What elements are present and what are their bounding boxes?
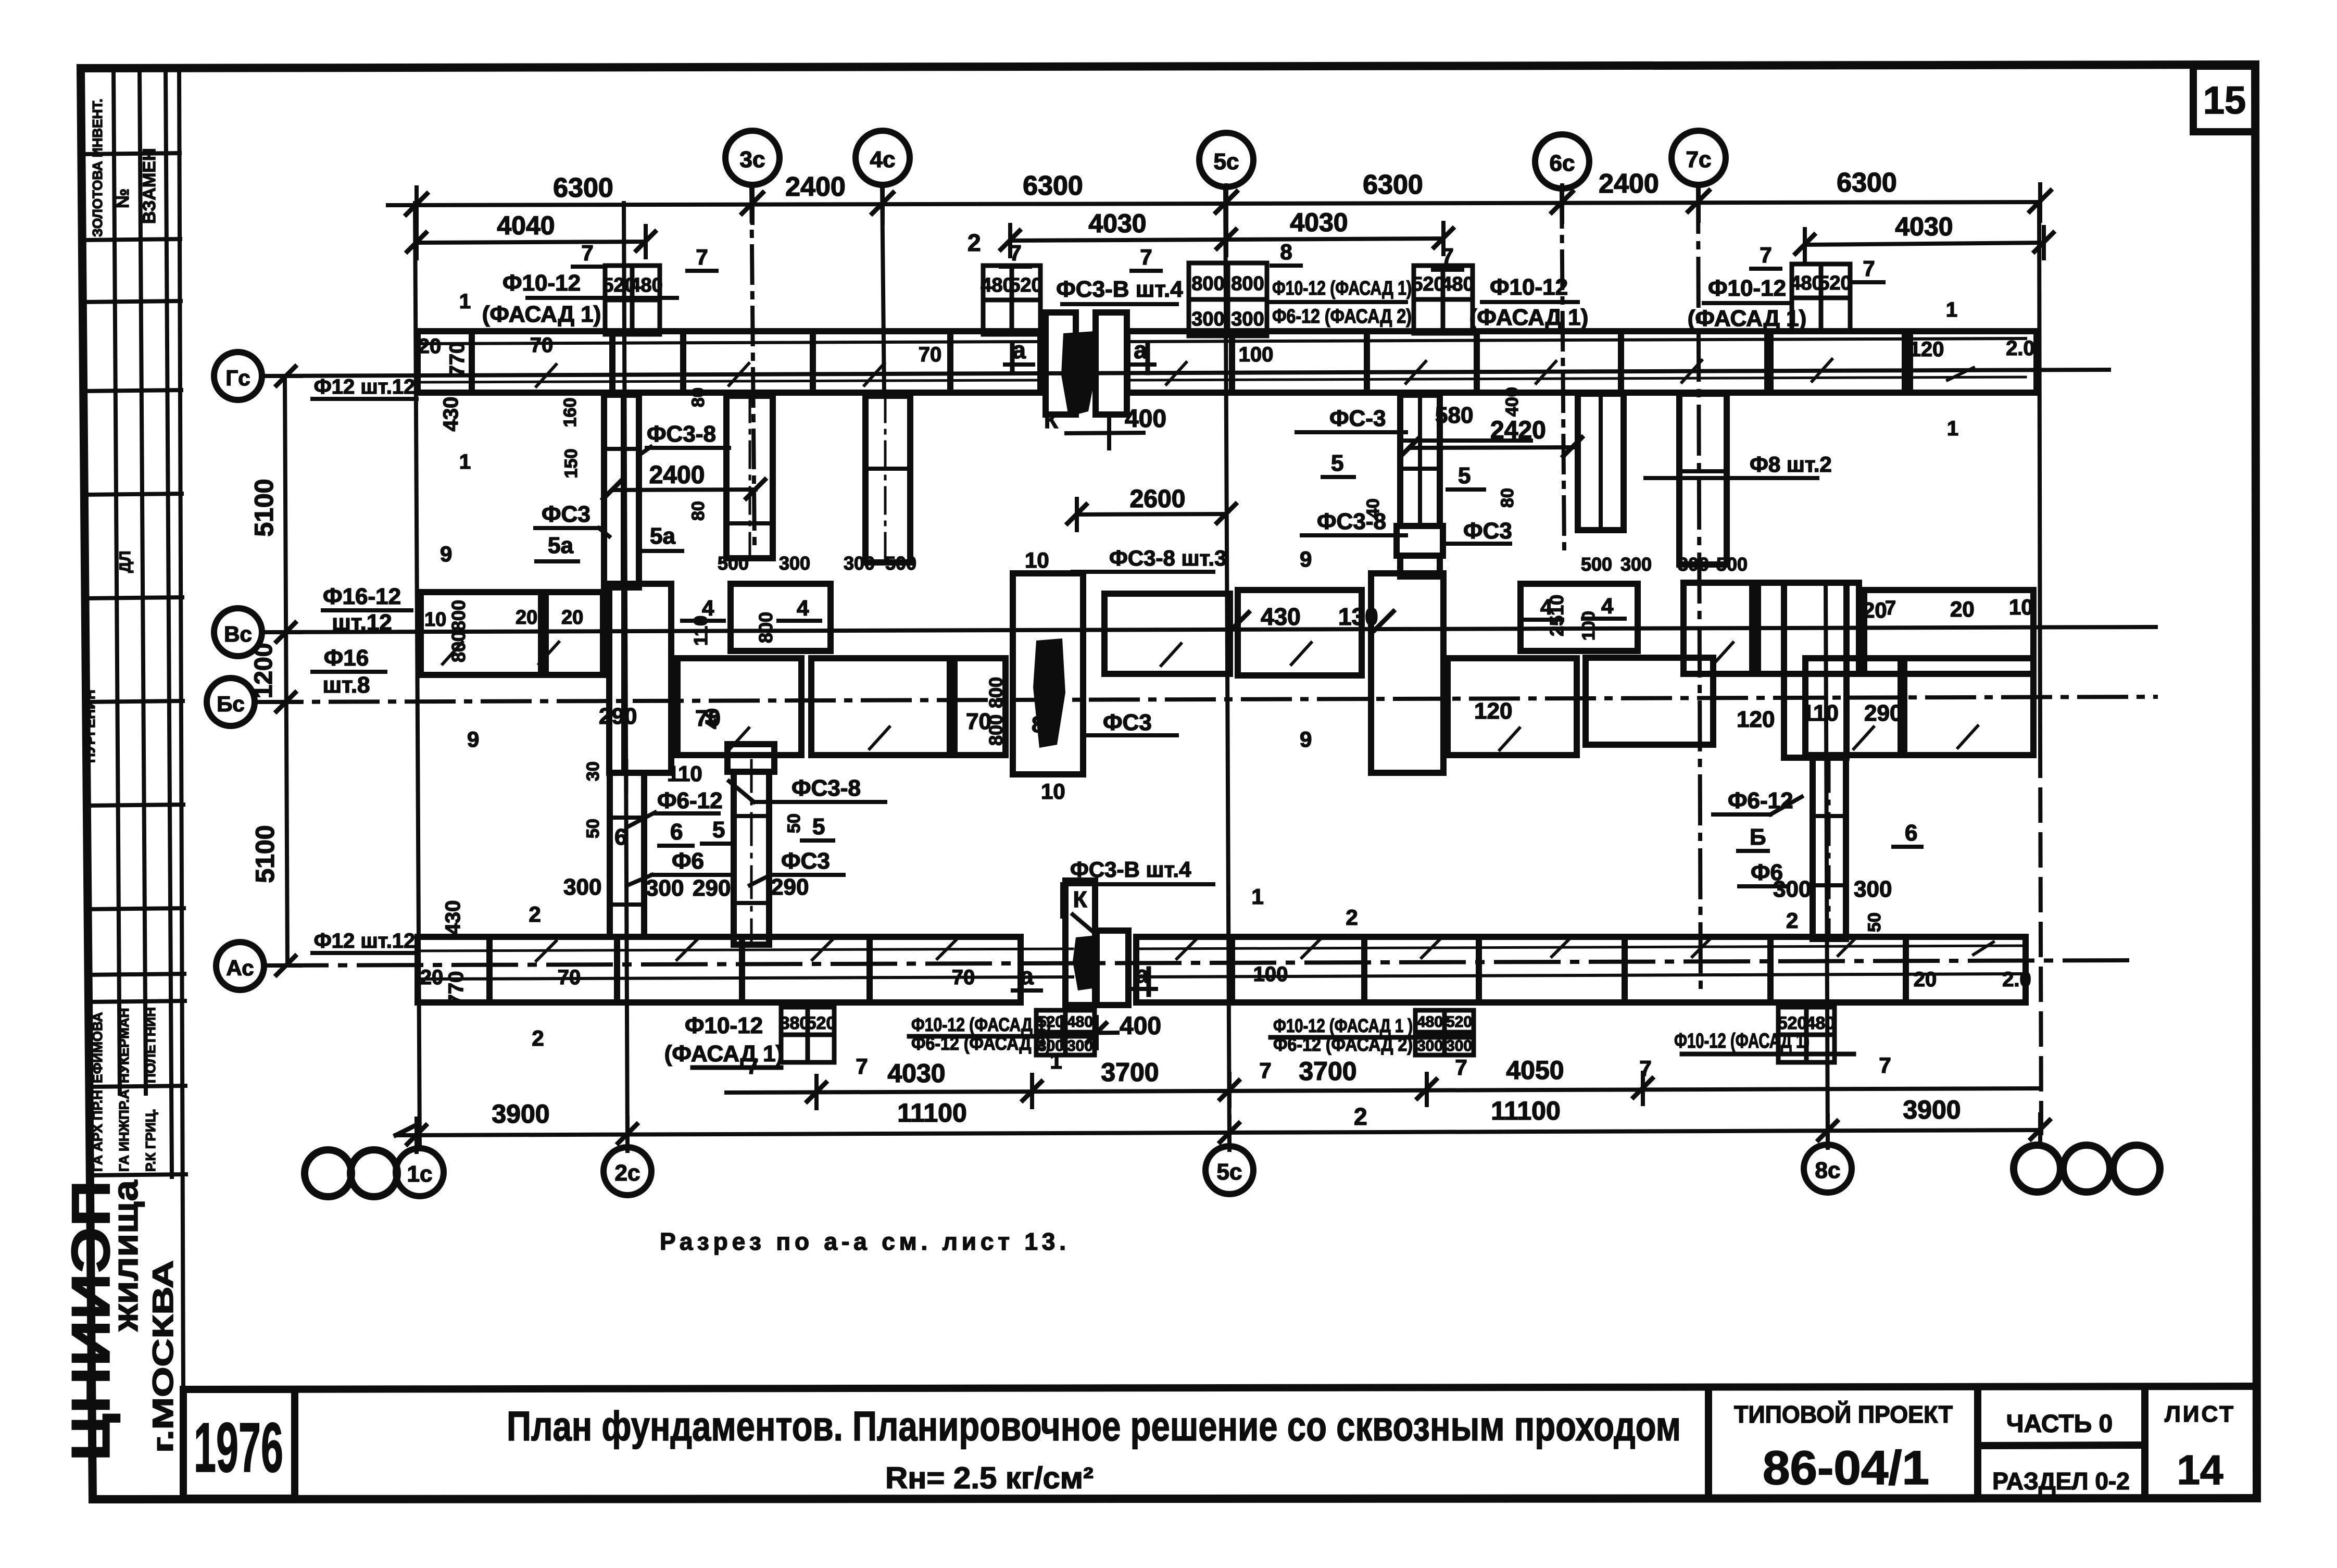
svg-text:520: 520 <box>1818 272 1851 294</box>
svg-text:7: 7 <box>696 245 708 269</box>
svg-text:2: 2 <box>968 229 981 256</box>
svg-text:800: 800 <box>985 677 1007 708</box>
svg-text:2.0: 2.0 <box>2006 337 2035 360</box>
svg-text:100: 100 <box>1253 963 1288 986</box>
svg-text:7: 7 <box>856 1054 868 1078</box>
svg-text:Ф16-12: Ф16-12 <box>323 584 401 609</box>
svg-text:4030: 4030 <box>887 1059 945 1088</box>
svg-text:480: 480 <box>1790 272 1823 294</box>
svg-text:(ФАСАД 1): (ФАСАД 1) <box>1469 305 1589 330</box>
LABELS between Гс and Вс <box>439 290 1958 575</box>
svg-text:а: а <box>1135 961 1149 988</box>
centerlines <box>626 760 629 937</box>
strip segment <box>1625 937 1770 1002</box>
GRID AXES & CIRCLES <box>255 185 2156 1149</box>
7 section marks with bars <box>581 240 1875 281</box>
svg-text:160: 160 <box>560 398 580 428</box>
svg-text:300: 300 <box>779 553 810 574</box>
svg-text:Ф6-12: Ф6-12 <box>657 788 723 813</box>
svg-text:400: 400 <box>1125 405 1166 433</box>
svg-text:40: 40 <box>1363 498 1383 518</box>
svg-text:520: 520 <box>1778 1013 1807 1033</box>
svg-text:г.МОСКВА: г.МОСКВА <box>146 1260 179 1453</box>
dim row B1 <box>726 1088 2040 1093</box>
svg-text:9: 9 <box>440 542 452 566</box>
svg-text:70: 70 <box>966 709 991 734</box>
top circle 7с <box>1672 131 1726 185</box>
svg-text:20: 20 <box>420 966 444 989</box>
svg-text:Ф12 шт.12: Ф12 шт.12 <box>314 930 416 952</box>
svg-text:70: 70 <box>558 966 581 989</box>
inner line of strip <box>418 977 1073 979</box>
svg-text:290: 290 <box>599 704 637 729</box>
bottom blank circle <box>350 1150 397 1197</box>
STRIP ROW Вс/Бс (middle foundation band) <box>421 573 2033 774</box>
svg-text:5: 5 <box>812 814 825 839</box>
svg-text:80: 80 <box>1498 488 1517 508</box>
svg-text:6300: 6300 <box>1363 170 1423 200</box>
diagonal break marks <box>443 642 1978 750</box>
junction piece a-a right <box>1096 312 1127 415</box>
box 520x480 <box>605 266 660 334</box>
bar near 6с right <box>1578 394 1624 530</box>
svg-text:7: 7 <box>1879 1053 1891 1077</box>
circle Ас <box>216 942 264 990</box>
vertical bar <box>1784 583 1846 758</box>
svg-text:300: 300 <box>1231 308 1264 330</box>
svg-text:800: 800 <box>448 600 469 631</box>
svg-text:120: 120 <box>1737 707 1775 732</box>
svg-text:Ф6: Ф6 <box>672 848 704 874</box>
svg-text:5с: 5с <box>1214 149 1239 174</box>
svg-text:430: 430 <box>1261 603 1301 630</box>
svg-text:100: 100 <box>1579 611 1599 641</box>
dim line row 1 <box>388 202 2040 205</box>
strip segment <box>489 937 617 1002</box>
svg-text:9: 9 <box>1300 727 1312 751</box>
grid line 5с <box>1225 187 1229 1147</box>
strip segment <box>870 937 1021 1002</box>
axis Вс line <box>262 627 2156 632</box>
svg-text:6: 6 <box>614 824 627 850</box>
svg-text:520: 520 <box>1038 1013 1064 1031</box>
svg-text:6300: 6300 <box>1023 171 1083 201</box>
svg-text:300: 300 <box>1678 554 1709 575</box>
svg-text:шт.12: шт.12 <box>332 610 392 635</box>
svg-text:800: 800 <box>448 631 469 662</box>
svg-text:6с: 6с <box>1550 150 1575 176</box>
svg-text:50: 50 <box>583 819 603 838</box>
svg-text:10: 10 <box>1041 779 1065 804</box>
svg-text:ФС3: ФС3 <box>1463 518 1512 544</box>
svg-text:120: 120 <box>1474 698 1512 724</box>
svg-text:Ф10-12 (ФАСАД 1): Ф10-12 (ФАСАД 1) <box>1272 278 1412 299</box>
grid line 6с <box>1562 190 1564 552</box>
svg-text:480: 480 <box>1067 1013 1093 1031</box>
svg-text:86-04/1: 86-04/1 <box>1763 1441 1929 1495</box>
svg-text:7: 7 <box>1885 597 1896 619</box>
svg-text:1: 1 <box>1251 884 1263 909</box>
right bar <box>1813 758 1846 939</box>
upper segment <box>1758 583 1859 674</box>
svg-text:3с: 3с <box>740 147 765 172</box>
bottom blank circle <box>2113 1145 2160 1192</box>
strip segment <box>617 937 742 1002</box>
svg-text:Ф10-12 (ФАСАД 1 ): Ф10-12 (ФАСАД 1 ) <box>1273 1015 1413 1036</box>
svg-text:10: 10 <box>1025 548 1049 572</box>
box 380x520 <box>781 1007 834 1062</box>
svg-text:ГА АРХ ПР.Н: ГА АРХ ПР.Н <box>90 1090 105 1172</box>
bar at 7с <box>1679 394 1727 565</box>
grid line 7с <box>1698 185 1701 995</box>
leaders <box>1297 430 1406 434</box>
svg-text:а: а <box>1012 336 1026 363</box>
svg-text:Ф10-12: Ф10-12 <box>685 1013 763 1038</box>
svg-text:4с: 4с <box>870 147 896 172</box>
svg-text:ЧАСТЬ 0: ЧАСТЬ 0 <box>2006 1410 2113 1438</box>
svg-text:Ф10-12: Ф10-12 <box>502 270 581 296</box>
svg-text:7: 7 <box>1455 1055 1467 1080</box>
strip segment <box>1770 937 1906 1002</box>
boxes near label pair 2 <box>1415 1010 1474 1032</box>
svg-text:ПУРГЕНИН: ПУРГЕНИН <box>82 689 98 763</box>
svg-text:Ф6-12: Ф6-12 <box>1728 788 1793 813</box>
top circle 6с <box>1535 134 1589 189</box>
svg-text:7: 7 <box>1009 241 1021 265</box>
strip segment <box>1906 937 2026 1002</box>
svg-text:2: 2 <box>529 902 541 926</box>
svg-text:6: 6 <box>1905 820 1917 846</box>
axis Гс line <box>262 370 2109 376</box>
svg-text:10: 10 <box>424 609 446 631</box>
svg-text:Ас: Ас <box>226 956 254 980</box>
svg-text:План фундаментов. Планировочн: План фундаментов. Планировочное решение … <box>507 1403 1681 1449</box>
svg-text:2: 2 <box>1346 905 1358 930</box>
svg-text:20: 20 <box>1914 968 1937 991</box>
svg-text:8: 8 <box>1280 240 1292 264</box>
svg-text:150: 150 <box>561 449 581 479</box>
svg-text:4040: 4040 <box>497 211 555 240</box>
svg-text:Вс: Вс <box>224 622 252 646</box>
svg-text:50: 50 <box>1865 912 1884 932</box>
svg-text:300: 300 <box>1773 876 1811 902</box>
svg-text:Ф10-12 (ФАСАД 1): Ф10-12 (ФАСАД 1) <box>911 1014 1051 1035</box>
sheet number box 15 <box>2193 66 2256 132</box>
svg-text:2400: 2400 <box>649 461 705 489</box>
dim line row 2 right 4030 <box>1805 243 2044 245</box>
lower segment <box>1805 658 1901 755</box>
svg-text:70: 70 <box>530 334 554 357</box>
circle Гс <box>214 352 262 400</box>
svg-text:4: 4 <box>797 596 809 620</box>
svg-text:3700: 3700 <box>1101 1058 1159 1087</box>
lower segment small <box>954 658 1006 755</box>
svg-text:2с: 2с <box>615 1160 640 1186</box>
svg-text:2: 2 <box>1786 908 1798 933</box>
svg-text:430: 430 <box>442 900 464 935</box>
svg-text:НУКЕРМАН: НУКЕРМАН <box>116 1008 132 1083</box>
svg-text:380: 380 <box>780 1013 810 1033</box>
svg-text:Rн= 2.5 кг/см²: Rн= 2.5 кг/см² <box>885 1461 1094 1495</box>
dim 2400 line <box>612 490 756 490</box>
svg-text:1: 1 <box>459 290 471 313</box>
diagonal break marks <box>536 936 1993 961</box>
svg-text:5100: 5100 <box>250 825 280 883</box>
svg-text:300: 300 <box>646 875 684 901</box>
svg-text:№: № <box>113 189 133 208</box>
top circle 5с <box>1199 133 1253 187</box>
svg-text:6: 6 <box>670 819 683 845</box>
LEFT DIMENSION LINE <box>269 367 300 975</box>
svg-text:500: 500 <box>1581 554 1612 575</box>
bottom circle 2с <box>604 1147 651 1195</box>
svg-text:70: 70 <box>919 343 942 366</box>
bar below Гс at 4с <box>865 396 910 562</box>
svg-text:ЕФИМОВА: ЕФИМОВА <box>90 1012 105 1083</box>
svg-text:4030: 4030 <box>1895 212 1953 241</box>
svg-text:ЛИСТ: ЛИСТ <box>2165 1401 2235 1427</box>
BOTTOM LABEL ROWS below Ас strip <box>664 1013 1891 1083</box>
svg-text:480: 480 <box>981 274 1013 296</box>
svg-text:40: 40 <box>701 708 723 729</box>
STRIP ROW Гс (top foundation band) <box>418 312 2037 415</box>
svg-text:300: 300 <box>1854 876 1892 902</box>
strip segment <box>472 331 612 393</box>
svg-text:1200: 1200 <box>250 643 278 699</box>
svg-text:5: 5 <box>1458 463 1471 488</box>
svg-text:300: 300 <box>1191 308 1224 330</box>
strip segment <box>1477 331 1621 393</box>
svg-text:4: 4 <box>1601 594 1614 618</box>
400 dim <box>1066 433 1144 433</box>
svg-text:80: 80 <box>1032 712 1057 737</box>
svg-text:480: 480 <box>1806 1013 1836 1033</box>
svg-text:7: 7 <box>1441 244 1453 268</box>
box 480x520 <box>1792 264 1850 332</box>
section cut arrows a-a top <box>1012 344 1149 996</box>
TOP DIMENSION LINES <box>388 184 2053 260</box>
svg-text:ДЛ: ДЛ <box>117 551 134 573</box>
bottom circle 5с <box>1205 1146 1253 1194</box>
strip segment <box>950 331 1040 393</box>
svg-text:120: 120 <box>1909 338 1944 361</box>
svg-text:30: 30 <box>583 761 603 781</box>
upper segment <box>1104 594 1230 674</box>
dim 2600 line <box>1077 514 1226 515</box>
svg-text:14: 14 <box>2177 1447 2223 1493</box>
svg-text:50: 50 <box>784 813 804 833</box>
svg-text:ФС3-8: ФС3-8 <box>647 421 716 447</box>
bottom blank circle <box>2063 1145 2110 1192</box>
lower segment <box>1904 658 2033 755</box>
svg-text:500: 500 <box>1716 554 1748 575</box>
strip segment <box>1232 331 1367 393</box>
segment joints <box>610 816 644 820</box>
lower segment <box>1448 658 1577 755</box>
svg-text:5а: 5а <box>650 523 675 549</box>
lower segment <box>677 658 801 755</box>
diagonal break marks <box>536 359 1974 386</box>
svg-text:480: 480 <box>1417 1013 1443 1031</box>
joint lines <box>1400 467 1440 471</box>
circle Бс <box>207 678 255 726</box>
grid line 2с <box>624 203 627 1148</box>
top circle 3с <box>725 131 780 185</box>
svg-text:ФС3-В шт.4: ФС3-В шт.4 <box>1056 277 1183 302</box>
svg-text:20: 20 <box>418 335 442 358</box>
bar pair right of 6с <box>1400 395 1440 526</box>
svg-text:11100: 11100 <box>1491 1096 1561 1125</box>
svg-text:6300: 6300 <box>1837 168 1897 198</box>
TITLE BLOCK <box>183 1386 2255 1498</box>
strip segment <box>1127 331 1232 393</box>
svg-text:Ф10-12: Ф10-12 <box>1490 274 1568 300</box>
svg-text:Р.К ГРИЦ.: Р.К ГРИЦ. <box>143 1109 158 1172</box>
svg-text:520: 520 <box>1446 1013 1472 1031</box>
svg-text:3900: 3900 <box>1903 1095 1961 1124</box>
svg-text:4050: 4050 <box>1506 1056 1564 1085</box>
boxes near label pair 1 <box>1036 1010 1095 1032</box>
svg-text:130: 130 <box>1338 603 1378 630</box>
svg-text:жилища: жилища <box>106 1180 145 1332</box>
svg-text:300: 300 <box>563 874 601 900</box>
svg-text:7: 7 <box>1760 243 1771 267</box>
svg-text:520: 520 <box>1412 273 1444 295</box>
svg-text:Ф12 шт.12: Ф12 шт.12 <box>314 375 416 398</box>
box 520x480 <box>1414 266 1473 333</box>
circle Вс <box>214 608 262 656</box>
bar below Гс at 3с <box>726 396 773 558</box>
svg-text:300: 300 <box>844 553 875 574</box>
svg-text:ПОЛЕТНИН: ПОЛЕТНИН <box>143 1007 158 1083</box>
junction piece right <box>1097 931 1128 1005</box>
svg-text:800: 800 <box>1231 273 1264 295</box>
svg-text:6300: 6300 <box>553 173 613 203</box>
strip segment <box>612 331 683 393</box>
arrow at 1c top of B2 <box>396 1125 417 1135</box>
dim line row 2 left 4040 <box>417 242 646 243</box>
svg-text:290: 290 <box>771 874 809 900</box>
svg-text:Б: Б <box>1750 824 1766 850</box>
svg-text:80: 80 <box>688 387 708 407</box>
svg-text:3700: 3700 <box>1299 1057 1356 1086</box>
svg-text:ФС3: ФС3 <box>781 848 830 874</box>
upper segment <box>421 592 541 675</box>
svg-text:80: 80 <box>688 501 708 521</box>
svg-text:20: 20 <box>516 607 537 629</box>
grid line 1с <box>415 203 420 1149</box>
svg-text:500: 500 <box>885 553 916 574</box>
upper segment <box>1683 583 1752 674</box>
strip segment <box>683 331 813 393</box>
svg-text:290: 290 <box>693 875 731 901</box>
svg-text:7: 7 <box>581 241 593 265</box>
svg-text:70: 70 <box>952 966 975 989</box>
svg-text:300: 300 <box>1038 1037 1064 1055</box>
svg-text:4030: 4030 <box>1290 208 1348 237</box>
svg-text:300: 300 <box>1446 1037 1472 1055</box>
strip segment <box>1910 331 2037 393</box>
box 480x520 <box>983 266 1040 334</box>
svg-text:770: 770 <box>446 342 469 377</box>
svg-text:РАЗДЕЛ 0-2: РАЗДЕЛ 0-2 <box>1992 1467 2130 1495</box>
grid line 4с <box>882 185 884 396</box>
upper segment <box>546 592 603 675</box>
lower segment <box>811 658 950 755</box>
svg-text:300: 300 <box>1067 1037 1093 1055</box>
upper right segment <box>1864 590 2033 674</box>
svg-text:8с: 8с <box>1815 1158 1841 1183</box>
svg-text:7: 7 <box>1259 1058 1271 1083</box>
bottom blank circle <box>2014 1145 2060 1192</box>
LABELS between Бс and Ас <box>563 761 1917 933</box>
svg-text:580: 580 <box>1435 403 1473 428</box>
box 800x800 300x300 <box>1189 263 1267 336</box>
svg-text:9: 9 <box>467 727 479 751</box>
svg-text:Ф8 шт.2: Ф8 шт.2 <box>1750 452 1832 476</box>
axis Ас line <box>264 960 2135 965</box>
svg-text:11100: 11100 <box>897 1098 967 1127</box>
svg-text:1976: 1976 <box>194 1408 283 1487</box>
svg-text:7: 7 <box>1639 1056 1651 1081</box>
LABEL BOXES above strip Гс <box>605 263 1850 336</box>
svg-text:1: 1 <box>1946 298 1957 321</box>
strip segment <box>742 937 870 1002</box>
svg-text:10: 10 <box>2009 595 2033 619</box>
svg-text:2600: 2600 <box>1130 485 1186 513</box>
svg-text:ФС3: ФС3 <box>542 501 590 527</box>
svg-text:ГА ИНЖПР.А: ГА ИНЖПР.А <box>116 1089 132 1172</box>
svg-text:К: К <box>1044 408 1058 433</box>
upper segment <box>1238 590 1362 675</box>
top circle 4с <box>856 131 910 185</box>
bar left pair <box>610 773 644 937</box>
strip segment <box>418 331 472 393</box>
svg-text:110: 110 <box>667 761 702 786</box>
svg-text:3900: 3900 <box>492 1099 549 1128</box>
bottom blank circle <box>305 1150 351 1197</box>
svg-text:2.0: 2.0 <box>2002 968 2031 991</box>
svg-text:а: а <box>1020 962 1034 989</box>
strip segment <box>1621 331 1767 393</box>
svg-text:110: 110 <box>1802 700 1839 726</box>
svg-text:ЗОЛОТОВА ИНВЕНТ.: ЗОЛОТОВА ИНВЕНТ. <box>90 99 105 237</box>
svg-text:15: 15 <box>2203 79 2246 122</box>
strip segment <box>1479 937 1625 1002</box>
bottom circle 1с <box>396 1148 444 1196</box>
right terminator line <box>2039 204 2040 745</box>
svg-text:770: 770 <box>445 971 468 1006</box>
vertical bar at 2с crossing <box>609 584 671 773</box>
vertical bar K junction <box>1013 573 1083 774</box>
svg-text:Ф10-12: Ф10-12 <box>1708 275 1786 301</box>
LABELS middle band <box>322 584 2033 804</box>
svg-text:400: 400 <box>1502 387 1522 417</box>
BOTTOM DIMENSION LINES <box>396 1073 2050 1152</box>
svg-text:5а: 5а <box>548 533 573 558</box>
svg-text:5с: 5с <box>1217 1159 1242 1185</box>
svg-text:300: 300 <box>1620 554 1652 575</box>
strip segment <box>418 937 489 1002</box>
svg-text:7с: 7с <box>1686 147 1712 172</box>
svg-text:300: 300 <box>1417 1037 1443 1055</box>
svg-text:ФС3-8 шт.3: ФС3-8 шт.3 <box>1109 546 1226 570</box>
svg-text:520: 520 <box>807 1013 836 1033</box>
svg-text:ФС3-В шт.4: ФС3-В шт.4 <box>1070 857 1191 882</box>
svg-text:2400: 2400 <box>1599 169 1659 199</box>
svg-text:Гс: Гс <box>225 366 250 390</box>
bottom circle 8с <box>1804 1145 1852 1193</box>
